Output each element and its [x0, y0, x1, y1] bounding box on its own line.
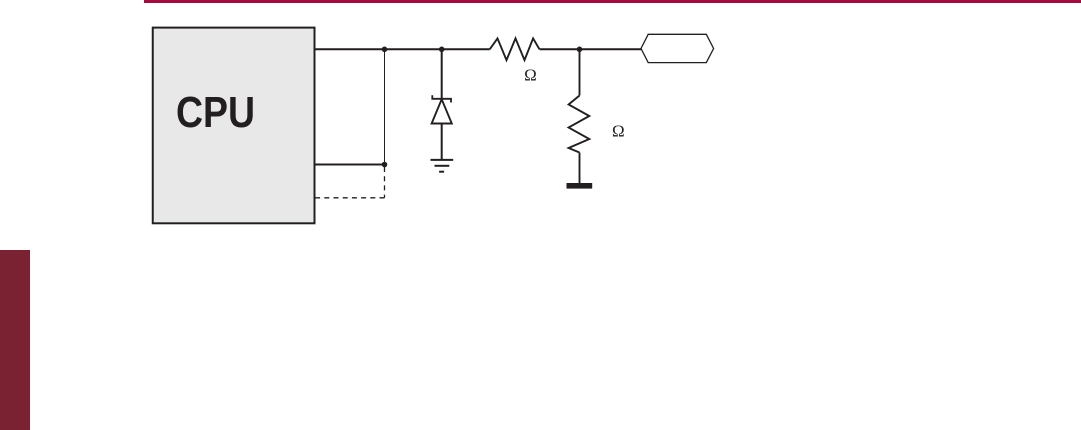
- zener diode D1 triangle: [432, 99, 452, 123]
- resistor R2 zigzag: [569, 96, 590, 153]
- svg-text:Ω: Ω: [612, 122, 625, 141]
- wire: thin vertical feedback line: [384, 49, 386, 164]
- svg-text:Ω: Ω: [524, 66, 537, 85]
- svg-text:CPU: CPU: [176, 89, 255, 137]
- dashed wire: horizontal to CPU: [316, 197, 385, 199]
- zener diode D1 cathode bar: [432, 95, 451, 102]
- CPU box: [153, 28, 315, 224]
- ground GND2 (solid bar): [567, 183, 593, 189]
- node junction dot D: [382, 162, 388, 168]
- wire: divider top lead: [579, 49, 581, 95]
- connector hexagon: [641, 34, 714, 62]
- left sidebar bar: [0, 250, 30, 430]
- wire: CPU second pin: [315, 164, 385, 166]
- wire: zener top lead: [441, 49, 443, 99]
- node junction dot A: [382, 47, 388, 53]
- top banner bar: [144, 0, 1081, 3]
- wire: CPU pin to resistor R1: [315, 48, 490, 50]
- dashed wire: vertical: [384, 167, 386, 198]
- wire: R2 bottom lead: [579, 153, 581, 184]
- ground GND1 (three bars): [431, 160, 454, 172]
- wire: zener bottom lead: [441, 124, 443, 160]
- node junction dot C (divider tap): [577, 47, 583, 53]
- resistor R1 zigzag: [490, 38, 540, 60]
- wire: R1 right to connector: [540, 48, 642, 50]
- node junction dot B (zener tap): [439, 47, 445, 53]
